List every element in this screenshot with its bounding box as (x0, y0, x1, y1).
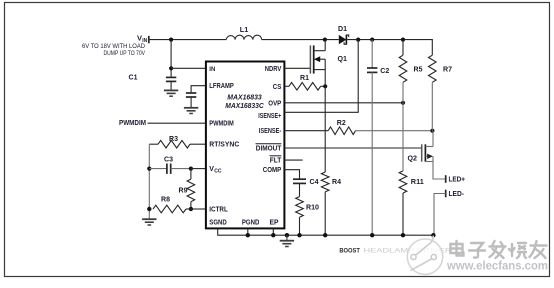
transistor Q1 (310, 40, 347, 87)
svg-text:Q1: Q1 (338, 56, 348, 63)
node LED- (446, 190, 465, 198)
resistor R9 (179, 169, 195, 209)
resistor R10 (296, 197, 319, 236)
svg-text:C1: C1 (129, 75, 138, 82)
svg-text:ISENSE-: ISENSE- (259, 128, 282, 135)
ground under C1 (164, 90, 178, 96)
wire FLT stub (284, 159, 302, 161)
junction R5 top (401, 38, 405, 42)
wire DIMOUT to Q2 gate (284, 147, 421, 149)
capacitor C2 (367, 40, 389, 236)
capacitor LFRAMP bypass (186, 93, 196, 108)
wire VIN to L1 (149, 39, 227, 41)
svg-text:FLT: FLT (270, 158, 282, 165)
svg-text:EP: EP (270, 220, 279, 227)
svg-text:PWMDIM: PWMDIM (119, 120, 146, 127)
svg-text:LFRAMP: LFRAMP (209, 83, 234, 90)
svg-text:NDRV: NDRV (265, 66, 282, 73)
svg-text:R8: R8 (161, 197, 170, 204)
wire VCC pin (191, 168, 206, 170)
wire Q1 source to R4 (324, 86, 326, 172)
svg-text:CS: CS (273, 84, 282, 91)
ground main (280, 235, 294, 246)
wire D1 cathode to R7 branch (346, 40, 432, 56)
svg-text:R7: R7 (443, 67, 452, 74)
junction C2 ground (370, 233, 374, 237)
svg-text:LED+: LED+ (449, 177, 466, 184)
junction R10 ground (297, 233, 301, 237)
svg-text:IN: IN (209, 67, 215, 73)
wire left bias column (148, 144, 150, 219)
text caption BOOST HEADLAMP DRIVER (339, 248, 451, 255)
resistor R11 (399, 103, 424, 235)
wire Q2 source to LED+ (433, 156, 446, 179)
svg-text:PGND: PGND (242, 220, 260, 227)
wire PGND drop (247, 228, 249, 235)
svg-text:C4: C4 (310, 179, 319, 186)
svg-text:C2: C2 (380, 68, 389, 75)
IC U1 MAX16833 (206, 62, 285, 229)
junction EP (271, 233, 275, 237)
junction R1 to Q1 source (323, 84, 327, 88)
junction ICTRL node (189, 207, 193, 211)
wire LED- return (434, 194, 446, 236)
svg-text:C3: C3 (164, 157, 173, 164)
junction Q1 drain (323, 38, 327, 42)
pin DIMOUT overline (256, 143, 282, 145)
junction ground tap (285, 233, 289, 237)
wire SGND drop (218, 228, 434, 235)
svg-text:DUMP UP TO 70V: DUMP UP TO 70V (104, 51, 146, 57)
svg-text:PWMDIM: PWMDIM (209, 121, 234, 128)
svg-text:DIMOUT: DIMOUT (256, 146, 282, 153)
junction C2 top (370, 38, 374, 42)
pin FLT overline (270, 155, 282, 157)
junction OVP divider (401, 101, 405, 105)
junction PGND (246, 233, 250, 237)
svg-text:MAX16833C: MAX16833C (225, 103, 264, 110)
svg-text:CC: CC (214, 169, 222, 175)
ground under LFRAMP cap (184, 108, 198, 114)
resistor R4 (321, 172, 341, 235)
svg-text:www.elecfans.com: www.elecfans.com (446, 258, 548, 272)
svg-text:R11: R11 (411, 179, 424, 186)
svg-text:R4: R4 (332, 179, 341, 186)
wire L1 to D1 (262, 39, 339, 41)
svg-text:RT/SYNC: RT/SYNC (209, 142, 239, 149)
resistor R2 (284, 120, 432, 135)
capacitor C1 (129, 75, 177, 91)
svg-text:L1: L1 (240, 27, 249, 34)
junction IN pin (169, 66, 173, 70)
wire COMP (284, 170, 299, 180)
watermark elecfans (407, 236, 548, 275)
capacitor C3 (149, 157, 191, 174)
junction R7 R2 Q2 drain (430, 129, 434, 133)
svg-text:COMP: COMP (263, 167, 282, 174)
ground left column (142, 219, 156, 225)
resistor R5 (399, 40, 422, 103)
junction LED- ground (431, 233, 435, 237)
junction ISENSE+ tap (356, 38, 360, 42)
junction C3 left (147, 167, 151, 171)
svg-text:R3: R3 (169, 136, 178, 143)
node VIN (82, 34, 149, 58)
svg-text:MAX16833: MAX16833 (227, 94, 262, 101)
wire PWMDIM (148, 122, 206, 124)
svg-text:6V TO 18V WITH LOAD: 6V TO 18V WITH LOAD (82, 44, 146, 50)
svg-text:OVP: OVP (268, 100, 281, 107)
wire IN pin (171, 67, 206, 69)
wire ISENSE+ (284, 40, 358, 113)
svg-text:SGND: SGND (209, 220, 227, 227)
junction VIN node (169, 38, 173, 42)
resistor R8 (153, 197, 191, 213)
svg-text:R2: R2 (337, 120, 346, 127)
svg-text:ICTRL: ICTRL (209, 207, 228, 214)
resistor R1 (284, 75, 325, 90)
svg-text:R5: R5 (414, 67, 423, 74)
svg-text:LED-: LED- (449, 191, 465, 198)
inductor L1 (226, 27, 261, 40)
resistor R3 (149, 136, 206, 148)
svg-text:D1: D1 (338, 26, 347, 33)
diode D1 (Schottky) (338, 26, 349, 44)
junction R11 ground (401, 233, 405, 237)
junction R4 ground (323, 233, 327, 237)
wire OVP (284, 102, 403, 104)
wire NDRV to Q1 gate (284, 67, 310, 69)
svg-text:Q2: Q2 (408, 156, 418, 163)
svg-text:ISENSE+: ISENSE+ (258, 113, 281, 120)
wire EP drop (272, 228, 274, 235)
capacitor C4 (293, 179, 319, 197)
wire VIN column (170, 40, 172, 78)
svg-text:R9: R9 (179, 188, 188, 195)
wire ICTRL pin (191, 208, 206, 210)
transistor Q2 (408, 131, 434, 163)
wire LFRAMP pin (191, 86, 206, 93)
junction R8 left (147, 207, 151, 211)
svg-text:R10: R10 (306, 205, 319, 212)
node LED+ (446, 175, 465, 183)
junction VCC node (189, 167, 193, 171)
svg-text:R1: R1 (300, 75, 309, 82)
resistor R7 (429, 55, 453, 131)
svg-text:BOOST: BOOST (339, 248, 360, 255)
